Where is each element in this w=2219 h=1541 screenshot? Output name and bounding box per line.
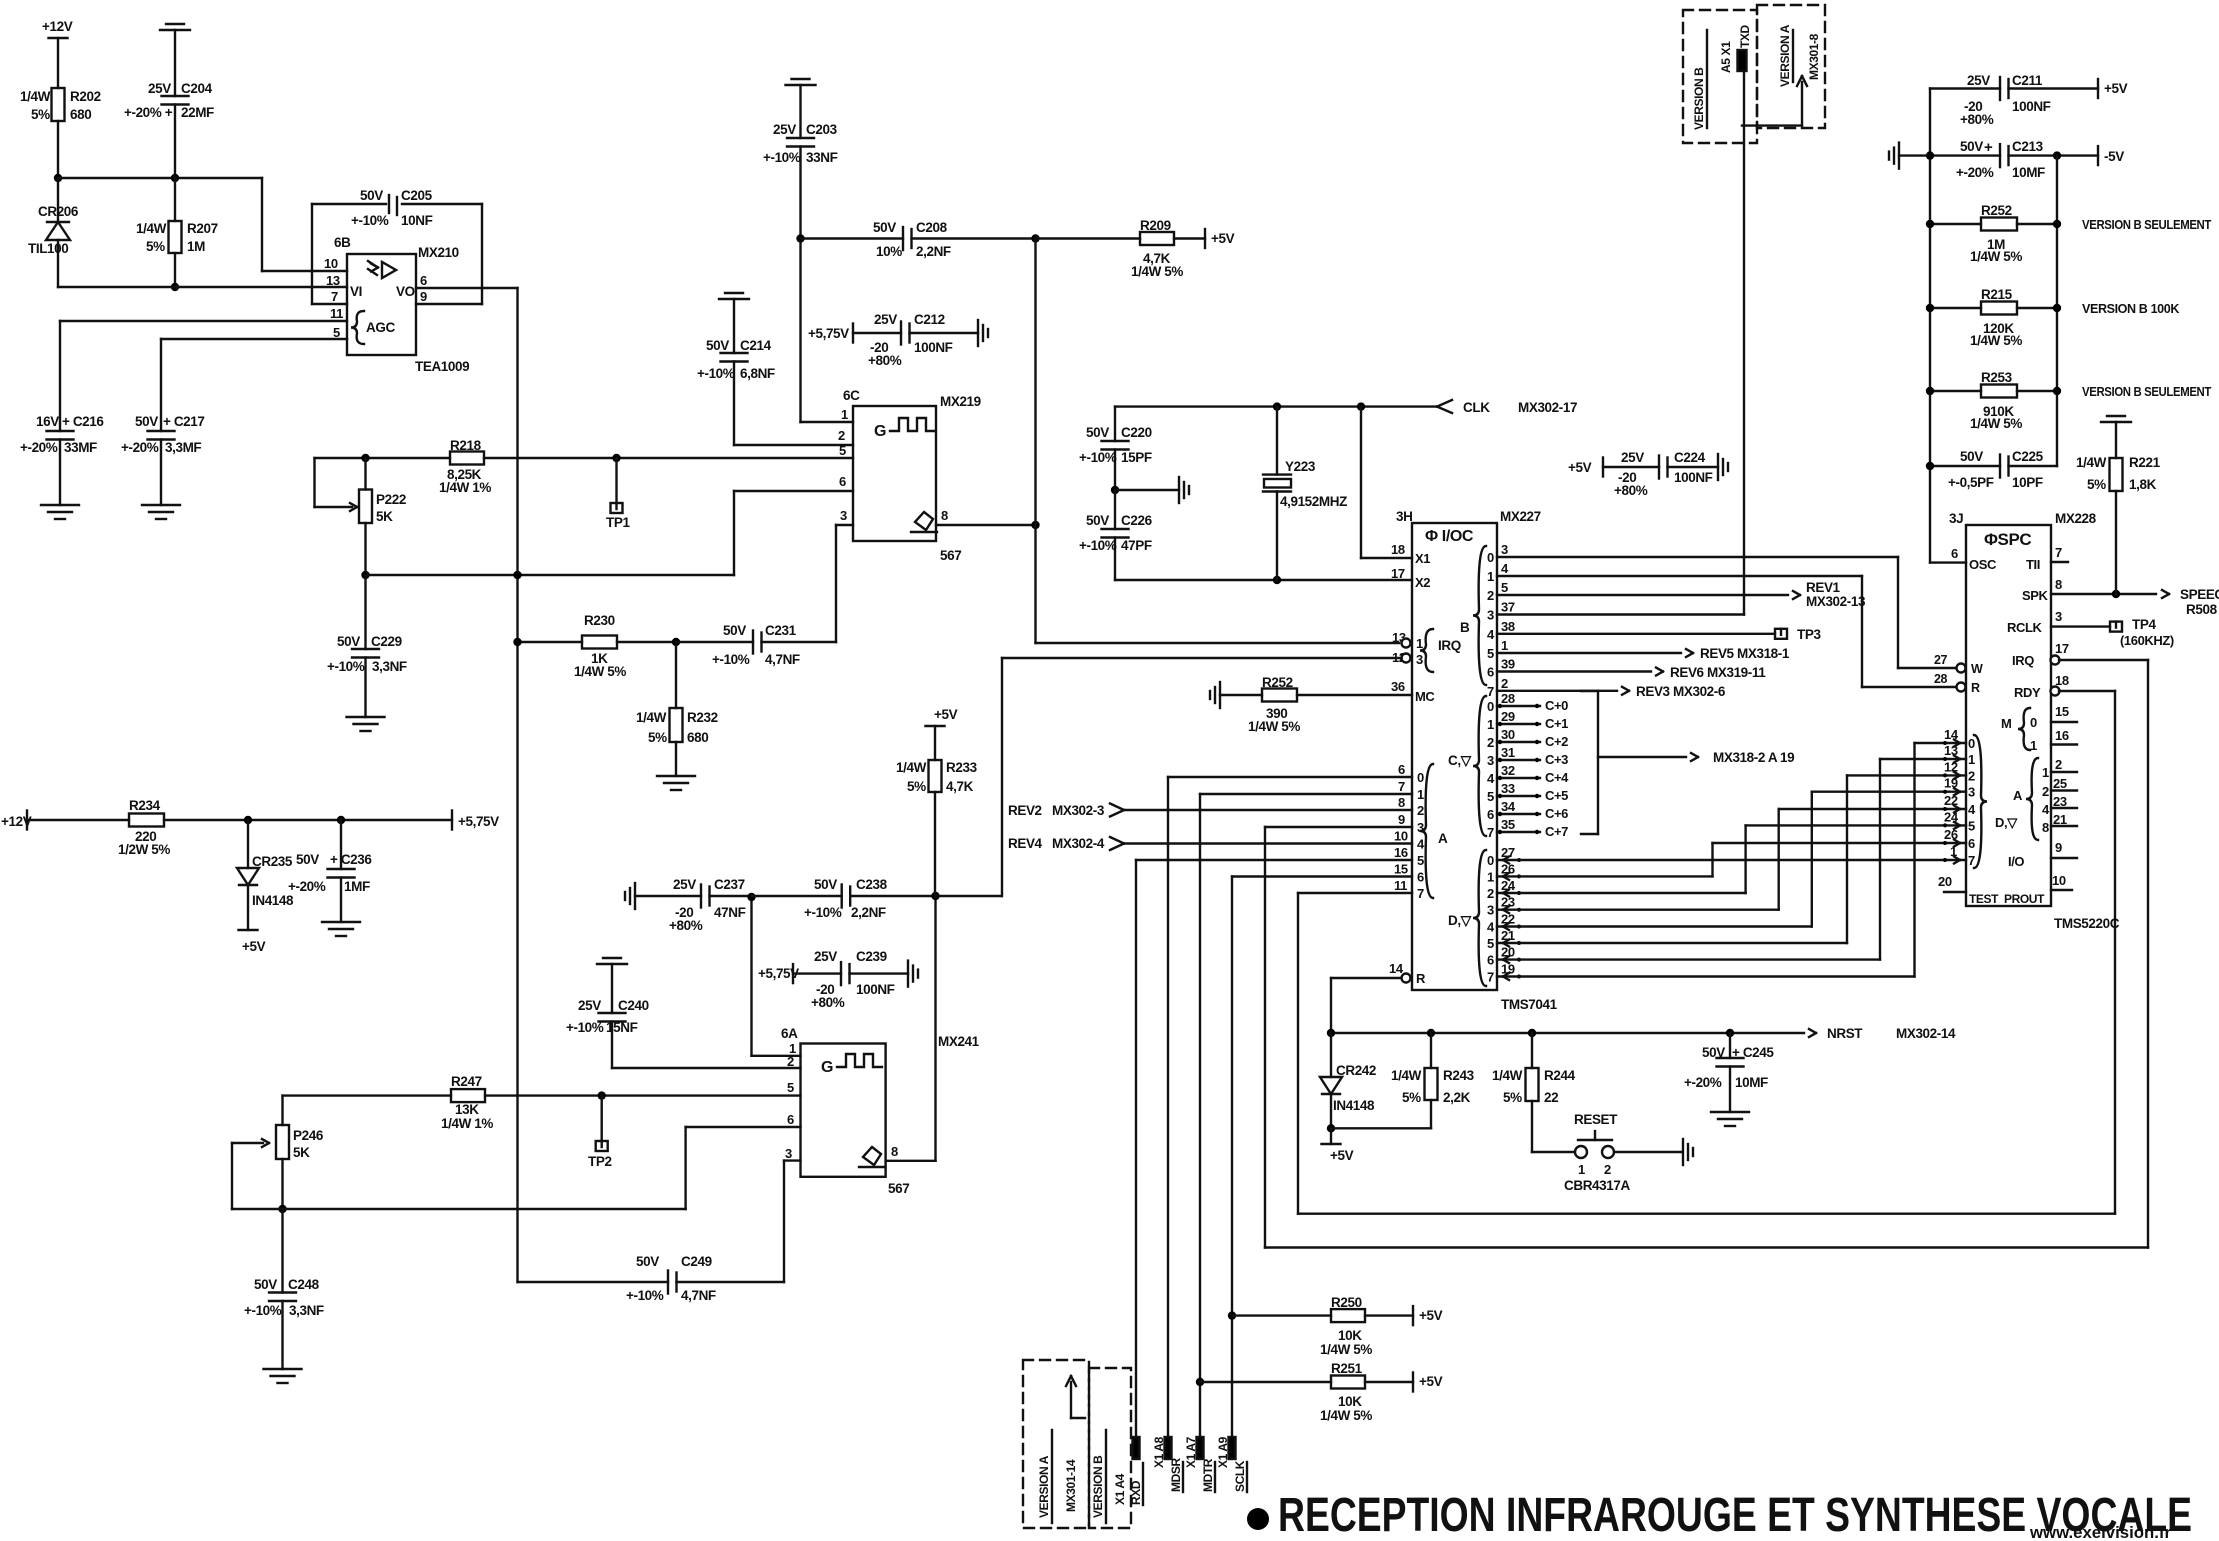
svg-text:50V: 50V xyxy=(1702,1045,1725,1060)
svg-text:+-10%: +-10% xyxy=(712,652,750,667)
ground below C216 xyxy=(41,504,79,506)
resistor R250 10K xyxy=(1232,1314,1331,1316)
svg-text:14: 14 xyxy=(1944,727,1959,742)
svg-text:680: 680 xyxy=(687,730,708,745)
svg-text:R234: R234 xyxy=(129,798,161,813)
svg-text:16: 16 xyxy=(1394,845,1408,860)
svg-text:4: 4 xyxy=(1487,771,1495,786)
svg-text:TP2: TP2 xyxy=(588,1154,612,1169)
svg-text:MX302-4: MX302-4 xyxy=(1052,836,1105,851)
capacitor C237 47NF xyxy=(635,895,701,897)
svg-text:A: A xyxy=(2013,788,2023,803)
svg-text:7: 7 xyxy=(1417,886,1424,901)
svg-text:24: 24 xyxy=(1944,809,1959,824)
capacitor C205 10NF xyxy=(388,195,390,213)
svg-text:7: 7 xyxy=(331,289,338,304)
svg-text:50V: 50V xyxy=(337,634,360,649)
svg-text:100NF: 100NF xyxy=(1674,470,1713,485)
svg-text:+5V: +5V xyxy=(1419,1308,1443,1323)
wire left rail down to OSC xyxy=(1929,89,1931,563)
op-amp U-TEA1009 outer box xyxy=(312,203,386,205)
svg-text:C237: C237 xyxy=(714,877,745,892)
svg-text:R221: R221 xyxy=(2129,455,2161,470)
svg-text:1/4W 5%: 1/4W 5% xyxy=(1320,1342,1372,1357)
svg-text:2: 2 xyxy=(2042,784,2049,799)
diode CR206 TIL100 xyxy=(57,178,59,222)
svg-text:3: 3 xyxy=(1501,542,1508,557)
svg-text:36: 36 xyxy=(1391,679,1405,694)
connector pad RXD xyxy=(1133,1437,1140,1459)
svg-text:5%: 5% xyxy=(907,779,926,794)
svg-text:CR206: CR206 xyxy=(38,204,79,219)
svg-text:6,8NF: 6,8NF xyxy=(740,366,775,381)
svg-text:1/4W: 1/4W xyxy=(136,221,167,236)
svg-text:+-20%: +-20% xyxy=(288,879,326,894)
MX227 A0 wire to MDSR pad xyxy=(1168,776,1412,778)
capacitor C208 2,2NF xyxy=(801,237,904,239)
MX241 pin2 wire xyxy=(612,1067,801,1069)
svg-text:R244: R244 xyxy=(1544,1068,1576,1083)
resistor R232 680 xyxy=(675,642,677,708)
resistor R207 1M xyxy=(174,178,176,221)
svg-text:26: 26 xyxy=(1944,827,1958,842)
svg-text:567: 567 xyxy=(940,548,961,563)
MX219 pin1 wire xyxy=(801,421,854,423)
ground above R221 xyxy=(2101,421,2131,423)
svg-text:+-10%: +-10% xyxy=(1079,450,1117,465)
svg-text:2: 2 xyxy=(1501,676,1508,691)
svg-text:3: 3 xyxy=(785,1146,792,1161)
svg-text:MX302-14: MX302-14 xyxy=(1896,1026,1956,1041)
svg-text:3: 3 xyxy=(1968,785,1975,800)
wire D7-D0bus xyxy=(1497,975,1915,977)
svg-text:2: 2 xyxy=(1487,588,1494,603)
MX227 IRQ brace xyxy=(1420,629,1433,672)
svg-text:X1 A8: X1 A8 xyxy=(1152,1436,1166,1468)
ground below R232 xyxy=(657,775,695,777)
svg-text:1/2W 5%: 1/2W 5% xyxy=(118,842,170,857)
svg-text:4: 4 xyxy=(2042,802,2050,817)
wire RDY loop vertical xyxy=(2114,691,2116,1214)
svg-text:5%: 5% xyxy=(31,107,50,122)
svg-text:6: 6 xyxy=(420,273,427,288)
svg-text:6: 6 xyxy=(787,1112,794,1127)
test point TP2 xyxy=(598,1091,606,1099)
svg-text:5: 5 xyxy=(1487,789,1494,804)
svg-text:5K: 5K xyxy=(376,509,393,524)
MX227 A4 wire REV4 xyxy=(1110,837,1124,844)
svg-text:R232: R232 xyxy=(687,710,718,725)
wire VI net to TEA1009 pin13 xyxy=(58,286,347,288)
svg-text:MDSR: MDSR xyxy=(1169,1458,1183,1492)
svg-text:27: 27 xyxy=(1934,653,1948,667)
svg-text:2: 2 xyxy=(2055,757,2062,772)
MX227 A2 wire REV2 xyxy=(1110,804,1124,811)
svg-text:25V: 25V xyxy=(148,81,171,96)
node CR242 bottom junction xyxy=(1327,1124,1335,1132)
capacitor C226 47PF xyxy=(1114,490,1116,529)
MX227 A1 wire to MDTR pad xyxy=(1200,793,1412,795)
svg-text:I/O: I/O xyxy=(2008,854,2024,869)
svg-text:50V: 50V xyxy=(1086,425,1109,440)
svg-text:+80%: +80% xyxy=(1960,112,1994,127)
svg-text:1/4W: 1/4W xyxy=(1391,1068,1422,1083)
svg-text:10%: 10% xyxy=(876,244,902,259)
svg-text:25V: 25V xyxy=(673,877,696,892)
wire to TEA1009 pin10 xyxy=(58,177,262,179)
svg-text:R: R xyxy=(1416,971,1426,986)
svg-text:C213: C213 xyxy=(2012,139,2044,154)
svg-text:0: 0 xyxy=(1487,550,1494,565)
power terminal +5V below CR242 xyxy=(1330,1128,1332,1144)
MX227 A6 wire to SCLK pad xyxy=(1232,875,1412,877)
SPEECH R508 arrow xyxy=(2162,590,2169,594)
MX227 B4 wire TP3 xyxy=(1497,633,1775,635)
ic MX241 567 box xyxy=(801,1044,886,1177)
svg-text:MX219: MX219 xyxy=(940,394,981,409)
svg-text:VERSION A: VERSION A xyxy=(1778,24,1792,87)
svg-text:10PF: 10PF xyxy=(2012,475,2043,490)
wire D0-D7bus xyxy=(1497,859,1966,861)
svg-text:R230: R230 xyxy=(584,613,615,628)
svg-text:3: 3 xyxy=(2055,609,2062,624)
C port bus bracket xyxy=(1581,690,1598,692)
ground below C248 xyxy=(264,1368,302,1370)
svg-text:10: 10 xyxy=(1394,829,1408,844)
ground above C204 xyxy=(160,29,190,31)
ground stub right of C212 xyxy=(977,320,979,346)
svg-text:IRQ: IRQ xyxy=(1438,638,1461,653)
resistor R252 1M xyxy=(1930,223,1981,225)
svg-text:R252: R252 xyxy=(1981,203,2012,218)
resistor R244 22 xyxy=(1531,1033,1533,1068)
svg-text:1: 1 xyxy=(2042,765,2049,780)
capacitor C203 33NF xyxy=(787,137,814,139)
power terminal +5V below CR235 xyxy=(239,929,258,931)
wire TEA1009 pin11 to C216 xyxy=(60,320,347,322)
wire R230 net xyxy=(518,641,583,643)
node P246 bottom junction xyxy=(281,1159,283,1209)
svg-text:+-10%: +-10% xyxy=(763,150,801,165)
svg-text:VERSION B: VERSION B xyxy=(1692,67,1706,130)
svg-text:MX301-14: MX301-14 xyxy=(1064,1459,1078,1512)
resistor R251 10K xyxy=(1200,1381,1331,1383)
ground stub right of RESET xyxy=(1682,1139,1684,1165)
svg-text:VERSION B SEULEMENT: VERSION B SEULEMENT xyxy=(2082,385,2212,399)
svg-text:1/4W 5%: 1/4W 5% xyxy=(574,664,626,679)
svg-text:R250: R250 xyxy=(1331,1295,1362,1310)
svg-text:50V: 50V xyxy=(636,1254,659,1269)
svg-text:+-10%: +-10% xyxy=(697,366,735,381)
svg-text:6: 6 xyxy=(1487,665,1494,680)
svg-text:10: 10 xyxy=(2052,873,2066,888)
svg-text:VI: VI xyxy=(350,284,362,299)
capacitor C240 15NF xyxy=(597,963,627,965)
svg-text:MX301-8: MX301-8 xyxy=(1807,33,1821,80)
svg-text:100NF: 100NF xyxy=(914,340,953,355)
svg-text:5: 5 xyxy=(333,325,340,340)
node junction C204/R207 xyxy=(171,174,179,182)
MX227 D port brace xyxy=(1473,850,1486,986)
svg-text:22: 22 xyxy=(1544,1090,1558,1105)
svg-text:+5V: +5V xyxy=(1568,460,1592,475)
wire CLK rail xyxy=(1115,405,1437,407)
svg-text:6: 6 xyxy=(1417,870,1424,885)
svg-text:C238: C238 xyxy=(856,877,888,892)
MX227 A5 wire to RXD pad xyxy=(1136,859,1412,861)
svg-text:35: 35 xyxy=(1501,817,1515,832)
resistor R247 13K xyxy=(283,1094,452,1096)
svg-text:5K: 5K xyxy=(293,1145,310,1160)
svg-text:C225: C225 xyxy=(2012,449,2044,464)
svg-text:+-20%: +-20% xyxy=(121,440,159,455)
wire P246 to MX241 pin6 xyxy=(283,1208,686,1210)
svg-text:+-20%: +-20% xyxy=(20,440,58,455)
svg-text:MDTR: MDTR xyxy=(1201,1458,1215,1492)
node C220/C226 junction xyxy=(1111,486,1119,494)
svg-text:1/4W 1%: 1/4W 1% xyxy=(441,1116,493,1131)
svg-text:5: 5 xyxy=(839,443,846,458)
svg-text:+-10%: +-10% xyxy=(351,213,389,228)
svg-text:-5V: -5V xyxy=(2104,149,2124,164)
svg-text:C229: C229 xyxy=(371,634,402,649)
svg-text:3,3NF: 3,3NF xyxy=(289,1303,324,1318)
svg-text:11: 11 xyxy=(330,306,343,321)
svg-text:C212: C212 xyxy=(914,312,945,327)
MX219 pin3 wire xyxy=(836,524,853,526)
svg-text:1/4W: 1/4W xyxy=(1492,1068,1523,1083)
resistor R209 4,7K xyxy=(1140,232,1174,245)
capacitor C248 3,3NF xyxy=(281,1209,283,1293)
ground stub between C220 C226 xyxy=(1115,489,1179,491)
svg-text:IRQ: IRQ xyxy=(2012,653,2034,668)
capacitor C211 100NF xyxy=(1930,87,2000,89)
svg-text:1/4W: 1/4W xyxy=(20,89,51,104)
svg-text:R218: R218 xyxy=(450,438,482,453)
svg-text:NRST: NRST xyxy=(1827,1026,1863,1041)
svg-text:SPEECH: SPEECH xyxy=(2180,587,2219,602)
svg-text:M: M xyxy=(2001,716,2011,731)
MX227 B0 wire to W xyxy=(1497,556,1898,558)
MX241 pin3 wire xyxy=(784,1159,801,1161)
svg-text:3: 3 xyxy=(1487,903,1494,918)
resistor R218 8,25K xyxy=(450,452,484,465)
wire long VO vertical xyxy=(516,288,518,1282)
MX227 C port brace xyxy=(1473,696,1486,836)
wire IRQ loop vertical xyxy=(2147,660,2149,1248)
svg-text:2: 2 xyxy=(1417,803,1424,818)
svg-text:8: 8 xyxy=(941,508,948,523)
svg-text:C204: C204 xyxy=(181,81,213,96)
svg-text:4,7K: 4,7K xyxy=(946,779,974,794)
svg-text:15: 15 xyxy=(2055,704,2069,719)
capacitor C220 15PF xyxy=(1114,407,1116,441)
capacitor C245 10MF xyxy=(1729,1033,1731,1058)
svg-text:20: 20 xyxy=(1938,874,1952,889)
ic MX227 TMS7041 box xyxy=(1412,523,1497,990)
svg-text:6: 6 xyxy=(1487,807,1494,822)
svg-text:IN4148: IN4148 xyxy=(1333,1098,1375,1113)
svg-text:19: 19 xyxy=(1944,776,1958,791)
svg-text:+ C245: + C245 xyxy=(1732,1045,1774,1060)
ic MX219 567 box xyxy=(853,406,936,541)
svg-text:ΦSPC: ΦSPC xyxy=(1984,530,2031,549)
MX227 A port labels xyxy=(1420,764,1433,898)
svg-text:6B: 6B xyxy=(334,235,351,250)
CLK arrow and labels xyxy=(1437,400,1452,407)
svg-text:0: 0 xyxy=(2030,715,2037,730)
svg-text:R252: R252 xyxy=(1262,675,1293,690)
wire C208 net vertical to IRQ1 xyxy=(1034,239,1036,644)
svg-text:6C: 6C xyxy=(843,388,860,403)
svg-text:4,9152MHZ: 4,9152MHZ xyxy=(1280,494,1347,509)
svg-text:7: 7 xyxy=(1487,970,1494,985)
wire X2 line xyxy=(1115,579,1412,581)
svg-text:680: 680 xyxy=(70,107,91,122)
svg-text:0: 0 xyxy=(1968,736,1975,751)
MX227 A7 wire to RDY loop xyxy=(1298,892,1412,894)
svg-text:C248: C248 xyxy=(288,1277,320,1292)
svg-text:TIL100: TIL100 xyxy=(28,241,68,256)
svg-text:1/4W 5%: 1/4W 5% xyxy=(1970,249,2022,264)
node C237 junction xyxy=(747,893,755,901)
svg-text:X1 A4: X1 A4 xyxy=(1113,1473,1127,1505)
svg-text:C,▽: C,▽ xyxy=(1448,753,1473,768)
potentiometer P222 5K xyxy=(361,454,369,462)
svg-text:C224: C224 xyxy=(1674,450,1706,465)
svg-text:25: 25 xyxy=(2053,776,2067,791)
svg-text:1: 1 xyxy=(2030,738,2037,753)
svg-text:MC: MC xyxy=(1415,689,1435,704)
node C238 junction xyxy=(931,892,939,900)
svg-text:+5V: +5V xyxy=(1419,1374,1443,1389)
ground stub left of C213 xyxy=(1898,143,1900,169)
MX228 D port labels xyxy=(1974,735,1987,868)
svg-text:TP4: TP4 xyxy=(2132,617,2156,632)
svg-text:+-20%: +-20% xyxy=(1956,165,1994,180)
svg-text:50V: 50V xyxy=(1086,513,1109,528)
svg-text:R207: R207 xyxy=(187,221,218,236)
svg-text:31: 31 xyxy=(1501,745,1515,760)
ground stub right of C224 xyxy=(1717,454,1719,480)
resistor R234 220 xyxy=(129,814,164,827)
svg-text:21: 21 xyxy=(2053,812,2067,827)
svg-text:C+3: C+3 xyxy=(1545,752,1568,767)
svg-text:MX227: MX227 xyxy=(1500,509,1541,524)
svg-text:TII: TII xyxy=(2026,557,2040,572)
svg-text:W: W xyxy=(1971,662,1983,676)
svg-text:8: 8 xyxy=(1398,795,1405,810)
svg-text:1: 1 xyxy=(1487,569,1494,584)
ground below C217 xyxy=(142,504,180,506)
svg-text:C+0: C+0 xyxy=(1545,698,1568,713)
coil TXD pad xyxy=(1738,50,1747,71)
svg-text:5%: 5% xyxy=(146,239,165,254)
svg-text:C205: C205 xyxy=(401,188,433,203)
svg-text:G: G xyxy=(874,423,886,440)
test point TP1 xyxy=(612,454,620,462)
ground stub right of C239 xyxy=(907,961,909,987)
svg-text:8: 8 xyxy=(2042,820,2049,835)
svg-text:28: 28 xyxy=(1934,672,1948,686)
svg-text:+-10%: +-10% xyxy=(804,905,842,920)
svg-text:30: 30 xyxy=(1501,727,1515,742)
svg-text:34: 34 xyxy=(1501,799,1516,814)
svg-text:17: 17 xyxy=(1391,566,1405,581)
svg-text:P222: P222 xyxy=(376,492,406,507)
svg-text:16: 16 xyxy=(2055,728,2069,743)
svg-text:Φ I/OC: Φ I/OC xyxy=(1425,528,1474,545)
node junction R207 bottom xyxy=(171,283,179,291)
svg-text:22: 22 xyxy=(1944,793,1958,808)
svg-text:C+5: C+5 xyxy=(1545,788,1568,803)
svg-text:11: 11 xyxy=(1394,878,1407,893)
wire pin12 net down to C238 xyxy=(1001,658,1003,896)
svg-text:4,7NF: 4,7NF xyxy=(765,652,800,667)
node C208 junction right xyxy=(1031,234,1039,242)
svg-text:PROUT: PROUT xyxy=(2004,892,2045,906)
svg-text:5%: 5% xyxy=(1503,1090,1522,1105)
svg-text:+5,75V: +5,75V xyxy=(458,814,499,829)
svg-text:C231: C231 xyxy=(765,623,797,638)
svg-text:13: 13 xyxy=(1944,743,1958,758)
svg-text:3: 3 xyxy=(1487,753,1494,768)
test point TP4 xyxy=(2110,622,2122,632)
op-amp U6B TEA1009 body xyxy=(347,254,416,355)
svg-text:25V: 25V xyxy=(578,998,601,1013)
version arrow bottom xyxy=(1071,1417,1085,1419)
svg-text:5%: 5% xyxy=(648,730,667,745)
svg-text:0: 0 xyxy=(1487,853,1494,868)
svg-text:2: 2 xyxy=(1968,768,1975,783)
svg-text:C220: C220 xyxy=(1121,425,1152,440)
svg-text:+80%: +80% xyxy=(1614,483,1648,498)
crystal Y223 4,9152MHZ xyxy=(1276,407,1278,475)
wire X1 line xyxy=(1360,407,1362,558)
svg-text:1: 1 xyxy=(1578,1162,1585,1177)
version A arrow top xyxy=(1742,124,1802,126)
svg-text:1/4W 5%: 1/4W 5% xyxy=(1970,333,2022,348)
svg-text:R209: R209 xyxy=(1140,218,1171,233)
svg-text:7: 7 xyxy=(1398,779,1405,794)
svg-text:50V: 50V xyxy=(360,188,383,203)
ic MX228 TMS5220C box xyxy=(1966,525,2051,906)
svg-text:C208: C208 xyxy=(916,220,948,235)
ground above C203 xyxy=(786,84,816,86)
svg-text:9: 9 xyxy=(2055,840,2062,855)
svg-text:1/4W 1%: 1/4W 1% xyxy=(439,480,491,495)
svg-text:6: 6 xyxy=(1951,546,1958,561)
svg-text:R202: R202 xyxy=(70,89,101,104)
wire D1-D6bus xyxy=(1497,875,1713,877)
svg-text:3J: 3J xyxy=(1949,511,1963,526)
svg-text:38: 38 xyxy=(1501,619,1515,634)
wire P222 bottom xyxy=(364,523,366,575)
svg-text:1M: 1M xyxy=(187,239,205,254)
svg-text:2,2NF: 2,2NF xyxy=(851,905,886,920)
ground stub left of C237 xyxy=(634,883,636,909)
svg-text:10: 10 xyxy=(324,256,338,271)
svg-text:50V: 50V xyxy=(135,414,158,429)
svg-text:50V: 50V xyxy=(254,1277,277,1292)
svg-text:1/4W: 1/4W xyxy=(636,710,667,725)
svg-text:MX228: MX228 xyxy=(2055,511,2097,526)
svg-text:X1 A9: X1 A9 xyxy=(1216,1436,1230,1468)
connector pad MDTR xyxy=(1197,1437,1204,1459)
node C203/C208 junction xyxy=(796,234,804,242)
capacitor C238 2,2NF xyxy=(752,895,842,897)
svg-text:50V: 50V xyxy=(1960,449,1983,464)
